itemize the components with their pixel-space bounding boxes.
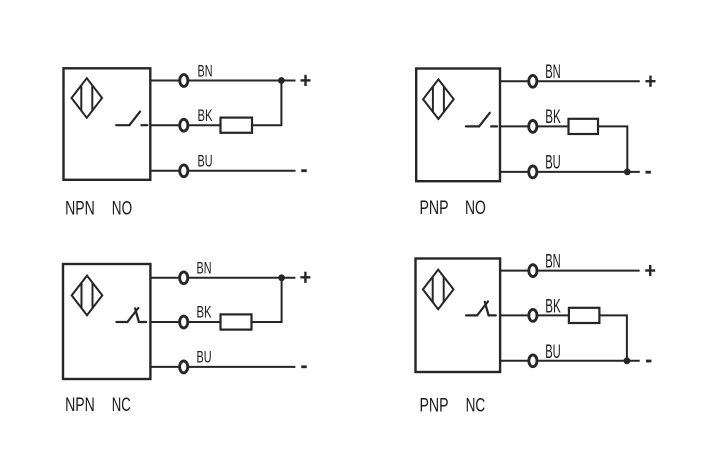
sensor symbol (diamond with chords) NPN NO bbox=[72, 78, 103, 118]
wire resistor to + junction NPN NO bbox=[252, 81, 281, 126]
switch contact (NC) PNP NC bbox=[466, 301, 496, 315]
switch contact (NC) NPN NC bbox=[116, 308, 146, 322]
svg-text:NC: NC bbox=[112, 394, 131, 416]
svg-text:BK: BK bbox=[198, 107, 213, 125]
wire BU PNP NC bbox=[500, 360, 640, 362]
junction node on BN NPN NO bbox=[278, 77, 285, 84]
plus terminal NPN NO bbox=[301, 75, 311, 86]
sensor box PNP NC bbox=[416, 259, 501, 373]
svg-text:BK: BK bbox=[545, 296, 561, 317]
minus terminal NPN NO bbox=[301, 169, 306, 172]
wire BN NPN NO bbox=[150, 80, 295, 82]
junction node on BU PNP NC bbox=[624, 357, 631, 364]
resistor load PNP NO bbox=[569, 119, 599, 134]
wire BU NPN NO bbox=[150, 170, 295, 172]
svg-text:NO: NO bbox=[112, 198, 132, 220]
wire BN PNP NO bbox=[500, 80, 640, 82]
wire BK PNP NO bbox=[500, 125, 569, 127]
svg-text:NC: NC bbox=[466, 394, 486, 416]
wire BK NPN NO bbox=[150, 124, 220, 126]
svg-text:BU: BU bbox=[545, 342, 561, 363]
sensor box NPN NO bbox=[64, 68, 151, 180]
terminal circle BN NPN NC bbox=[180, 272, 188, 284]
plus terminal NPN NC bbox=[300, 272, 310, 283]
switch contact (NO) PNP NO bbox=[466, 113, 497, 127]
svg-text:NPN: NPN bbox=[65, 198, 95, 220]
svg-text:BU: BU bbox=[197, 348, 212, 366]
sensor box PNP NO bbox=[416, 69, 500, 182]
svg-text:BN: BN bbox=[197, 259, 212, 277]
wire BU PNP NO bbox=[500, 171, 640, 173]
terminal circle BU NPN NO bbox=[180, 165, 188, 177]
terminal circle BK PNP NO bbox=[529, 121, 537, 133]
wire BK NPN NC bbox=[150, 321, 220, 323]
resistor load PNP NC bbox=[569, 308, 600, 323]
svg-text:BN: BN bbox=[545, 62, 561, 83]
svg-text:BK: BK bbox=[197, 304, 212, 322]
wire resistor to + junction NPN NC bbox=[252, 278, 282, 322]
plus terminal PNP NO bbox=[646, 76, 656, 87]
terminal circle BU PNP NO bbox=[529, 166, 537, 178]
terminal circle BN PNP NO bbox=[529, 75, 537, 87]
svg-text:PNP: PNP bbox=[420, 394, 449, 416]
sensor symbol (diamond with chords) PNP NC bbox=[423, 270, 454, 310]
terminal circle BK NPN NC bbox=[180, 316, 188, 328]
sensor symbol (diamond with chords) NPN NC bbox=[72, 276, 103, 316]
svg-text:BN: BN bbox=[198, 62, 213, 80]
wire BN NPN NC bbox=[150, 277, 295, 279]
wire BN PNP NC bbox=[500, 270, 640, 272]
svg-text:BK: BK bbox=[545, 107, 561, 128]
svg-text:NPN: NPN bbox=[65, 394, 95, 416]
terminal circle BU NPN NC bbox=[180, 361, 188, 373]
wire resistor to - junction PNP NO bbox=[598, 126, 627, 171]
terminal circle BN PNP NC bbox=[529, 265, 537, 277]
junction node on BU PNP NO bbox=[624, 169, 631, 176]
svg-text:NO: NO bbox=[465, 197, 486, 219]
svg-text:BU: BU bbox=[545, 153, 561, 174]
sensor symbol (diamond with chords) PNP NO bbox=[423, 79, 454, 119]
svg-text:PNP: PNP bbox=[420, 197, 449, 219]
wire BU NPN NC bbox=[150, 366, 295, 368]
minus terminal PNP NC bbox=[646, 360, 651, 363]
sensor box NPN NC bbox=[63, 264, 150, 379]
terminal circle BK NPN NO bbox=[180, 119, 188, 131]
minus terminal NPN NC bbox=[301, 365, 306, 368]
minus terminal PNP NO bbox=[646, 171, 651, 174]
svg-text:BN: BN bbox=[545, 252, 561, 273]
resistor load NPN NC bbox=[221, 314, 252, 329]
terminal circle BK PNP NC bbox=[529, 310, 537, 322]
wire BK PNP NC bbox=[500, 314, 569, 316]
junction node on BN NPN NC bbox=[278, 274, 285, 281]
resistor load NPN NO bbox=[221, 118, 253, 133]
plus terminal PNP NC bbox=[645, 265, 655, 276]
switch contact (NO) NPN NO bbox=[116, 112, 147, 126]
wire resistor to - junction PNP NC bbox=[599, 315, 627, 360]
terminal circle BN NPN NO bbox=[180, 75, 188, 87]
terminal circle BU PNP NC bbox=[529, 355, 537, 367]
svg-text:BU: BU bbox=[198, 153, 213, 171]
